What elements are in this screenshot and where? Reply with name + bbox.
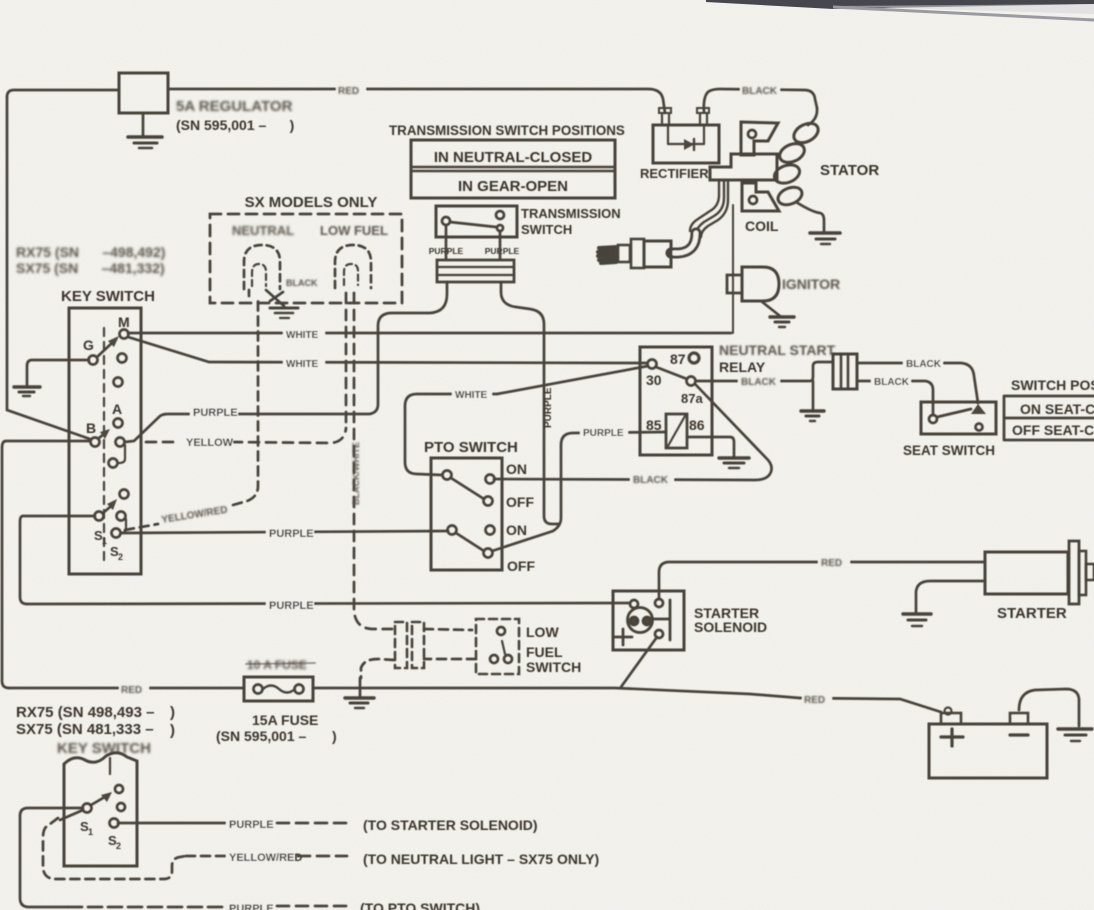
stator ground xyxy=(810,231,840,235)
wire: key switch B to left edge down to fuse line xyxy=(2,441,90,688)
terminal A xyxy=(114,419,123,428)
link between contacts xyxy=(119,445,125,463)
wire PURPLE to PTO switch (bottom row, clipped) xyxy=(68,906,226,909)
transmission positions table box xyxy=(411,140,615,198)
key switch contact (s blade) xyxy=(95,512,104,521)
battery box xyxy=(929,724,1047,778)
SX models dashed box xyxy=(210,214,402,303)
wire PURPLE: to starter solenoid (horizontal) xyxy=(27,603,630,604)
ground (below regulator) xyxy=(142,113,145,136)
ignitor module xyxy=(727,275,742,293)
solenoid coil circle xyxy=(628,608,653,633)
wire: outer solid loop to bottom purple line xyxy=(20,808,83,907)
key switch contact (s group top) xyxy=(120,490,129,499)
wire label PURPLE (A wire) xyxy=(190,404,238,419)
connector block below transmission switch xyxy=(437,260,514,282)
key switch blade G-M with arrow xyxy=(97,342,113,357)
starter solenoid box xyxy=(613,591,684,650)
wire: starter to ground xyxy=(916,581,985,612)
key switch blade B-A with arrow xyxy=(99,434,104,438)
wire RED solenoid to starter xyxy=(659,562,985,599)
coil lower lamination xyxy=(742,183,779,211)
battery + terminal xyxy=(941,713,961,724)
ground (battery) xyxy=(1058,727,1092,730)
inline connector (double bar) xyxy=(833,354,857,389)
wire RED fuse line xyxy=(9,687,244,690)
link between contacts xyxy=(121,519,126,533)
wire WHITE loop into PTO xyxy=(405,394,497,475)
stator coil loops xyxy=(808,108,817,125)
wire: S contact to left then down to purple solenoid line xyxy=(20,516,95,604)
wire: left vertical from top feed down to key switch B xyxy=(7,97,90,439)
wire: battery - to ground xyxy=(1019,689,1079,726)
wire BLACK connector to seat switch (bottom) xyxy=(857,381,933,415)
wire label RED (top feed) xyxy=(336,82,366,97)
wire YELLOW/RED dashed (bottom row) xyxy=(186,855,226,858)
wire YELLOW dashed from key switch xyxy=(146,428,346,443)
terminal B xyxy=(91,438,100,447)
wire: main top feed from regulator to rectifier xyxy=(7,90,119,97)
wire: white slant up to relay pin 30 xyxy=(497,366,648,394)
spark plug tip (dark) xyxy=(598,247,617,263)
wire WHITE 2: M to relay pin 30 xyxy=(128,337,646,363)
stator tail to ground xyxy=(796,202,824,231)
relay pin 30 xyxy=(648,360,657,369)
wire PURPLE to starter solenoid (bottom row) xyxy=(118,822,226,825)
key switch contact (purple feed) xyxy=(116,438,125,447)
wire BLACK from PTO ON looping to relay 87a xyxy=(494,385,772,480)
rectifier terminals xyxy=(662,113,669,125)
relay coil xyxy=(666,414,687,448)
lower key switch blade with arrow xyxy=(91,798,103,805)
PTO terminals xyxy=(443,471,452,480)
low fuel switch dashed box xyxy=(476,619,519,674)
wire YELLOW/RED dashed from S1 up to neutral lamp xyxy=(125,524,158,530)
low fuel switch contacts xyxy=(497,627,505,635)
transmission switch contacts xyxy=(442,217,450,225)
PTO blades xyxy=(451,478,484,499)
wire RED to battery + xyxy=(800,698,941,712)
wire PURPLE: S1 to PTO switch xyxy=(121,531,448,533)
key switch inner dashed line xyxy=(103,328,105,562)
wire: relay 86 to ground xyxy=(687,437,734,456)
spark plug elbow tube xyxy=(671,233,696,253)
ground (relay black tee) xyxy=(801,409,824,412)
wire: inner dashed loop to yellow/red line xyxy=(43,818,186,879)
key switch contact xyxy=(117,512,126,521)
key switch blade S with arrow xyxy=(103,507,110,513)
wires transmission switch to connector xyxy=(445,225,448,259)
relay blade 30-87a xyxy=(656,367,687,379)
seat switch positions table (clipped right) xyxy=(1004,396,1094,440)
wire: connector left lead flaring down to purple A wire xyxy=(125,282,447,442)
wire bundle from coil to spark plug xyxy=(690,180,719,231)
wire BLACK connector to seat switch (top) xyxy=(857,363,978,403)
wire PURPLE from relay 85 to PTO xyxy=(492,432,666,551)
key switch box xyxy=(69,308,141,574)
wire: solenoid lower terminal to battery line xyxy=(621,637,657,687)
neutral lamp lead stub xyxy=(248,290,251,299)
ground (low fuel / fuse line) xyxy=(359,678,362,697)
solenoid cross mark xyxy=(615,629,632,645)
fuse 15A box xyxy=(244,677,313,701)
terminal S1 xyxy=(112,529,121,538)
PTO switch box xyxy=(431,458,502,570)
seat switch box xyxy=(921,402,996,434)
wire: coil kill wire down to ignitor and M wire xyxy=(732,205,734,333)
wire WHITE 1: M to ignitor kill line xyxy=(128,332,731,335)
ground (key switch G) xyxy=(14,385,40,388)
seat switch contacts xyxy=(929,415,937,423)
coil core T bar xyxy=(710,154,777,180)
lower key switch box with torn top xyxy=(64,753,137,866)
scan artifact dark wedge top right xyxy=(706,0,1094,20)
rectifier box xyxy=(653,125,719,163)
low fuel lamp (dashed bulb) xyxy=(335,245,371,288)
coil upper lamination xyxy=(741,122,778,155)
rectifier inner diode xyxy=(668,125,704,144)
solenoid bar contact xyxy=(653,600,670,640)
battery - symbol xyxy=(1010,733,1028,736)
ground lead from neutral lamp xyxy=(266,290,284,306)
wire: rectifier right terminal to stator (BLACK) xyxy=(704,89,817,112)
regulator 5A box xyxy=(119,73,168,113)
battery + symbol xyxy=(941,729,963,746)
terminal G xyxy=(89,356,98,365)
key switch contact xyxy=(114,378,123,387)
wire: connector right lead flaring down to purple vertical xyxy=(501,282,559,524)
low fuel dashed connector xyxy=(395,622,407,668)
spark plug body xyxy=(644,241,671,267)
relay pin 87a xyxy=(687,377,696,386)
neutral start relay box xyxy=(640,347,712,455)
key switch contact xyxy=(118,354,127,363)
ground (starter) xyxy=(903,612,931,615)
lower key switch terminals xyxy=(83,804,92,813)
neutral lamp (dashed bulb) xyxy=(244,245,280,289)
dashed wires through connector to low fuel switch xyxy=(424,629,472,630)
ignitor ground xyxy=(761,301,780,316)
wire: G to ground xyxy=(27,360,89,385)
starter motor body xyxy=(985,552,1068,594)
solenoid terminals xyxy=(630,600,638,608)
battery - terminal xyxy=(1010,713,1028,724)
wire label BLACK (top) xyxy=(740,83,780,97)
key switch contact lower xyxy=(109,459,118,468)
dashed lead pair from low fuel lamp xyxy=(345,293,348,428)
terminal M xyxy=(120,330,129,339)
transmission switch box xyxy=(436,206,517,237)
wire BLACK from 87a to connector and ground tee xyxy=(696,362,833,381)
